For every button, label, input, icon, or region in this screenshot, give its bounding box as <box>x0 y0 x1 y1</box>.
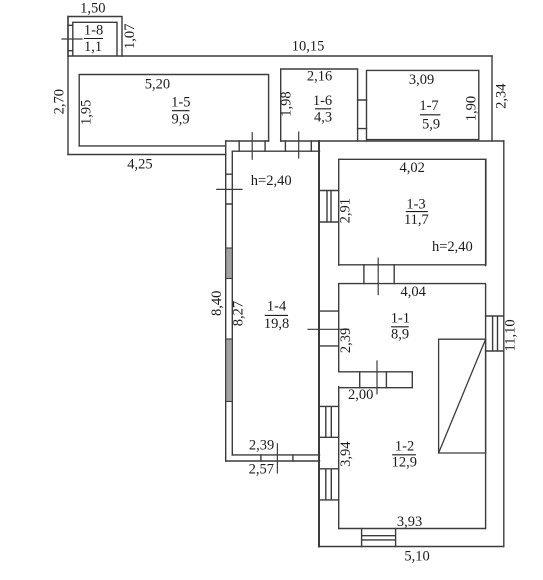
left wing bottom wall outer line <box>68 154 226 156</box>
window axis tick 1-8 <box>62 38 82 40</box>
svg-text:1-2: 1-2 <box>395 438 414 454</box>
svg-text:h=2,40: h=2,40 <box>432 239 473 255</box>
window connectors room 1-8 left wall <box>68 25 73 50</box>
svg-text:1-4: 1-4 <box>267 298 287 314</box>
svg-text:4,25: 4,25 <box>127 156 152 172</box>
svg-text:4,04: 4,04 <box>401 284 427 300</box>
door axis tick 1-4 left <box>217 188 242 190</box>
door axis tick 1-3/1-1 <box>377 258 379 294</box>
wall 1-1/1-2 <box>339 372 413 388</box>
door axis tick 1-1/1-2 <box>376 361 378 394</box>
inner face line x=338.7 segments <box>338 159 340 528</box>
door cells 1-3/1-1 <box>364 265 394 284</box>
upper strip right wall <box>491 56 493 141</box>
svg-text:11,10: 11,10 <box>503 319 519 351</box>
main dividing wall line (1-4 right / outer left below) <box>318 141 320 547</box>
room 1-5 box <box>79 75 268 146</box>
room 1-4 bottom wall outer line <box>226 460 320 462</box>
top wall of upper strip <box>68 55 492 57</box>
svg-text:1,50: 1,50 <box>80 0 105 16</box>
room 1-6 box <box>281 69 358 141</box>
svg-text:19,8: 19,8 <box>264 316 289 332</box>
svg-text:1,07: 1,07 <box>122 24 138 49</box>
svg-text:8,27: 8,27 <box>231 301 247 326</box>
room 1-4 left wall inner line <box>231 151 233 455</box>
svg-text:2,39: 2,39 <box>249 437 274 453</box>
door connectors between 1-6 and 1-7 <box>358 100 367 129</box>
svg-text:8,40: 8,40 <box>209 291 225 316</box>
doorway 1-4/1-1 <box>319 311 339 346</box>
svg-text:9,9: 9,9 <box>171 111 189 127</box>
door axis tick right <box>298 132 300 158</box>
window 1-4/1-2 lower <box>319 469 339 500</box>
filled opening 2 on 1-4 left wall <box>226 339 233 402</box>
svg-text:1-7: 1-7 <box>419 98 438 114</box>
svg-text:1,90: 1,90 <box>464 96 480 121</box>
stove <box>439 339 486 453</box>
svg-text:4,3: 4,3 <box>314 109 332 125</box>
inner right wall line segments <box>485 159 487 528</box>
window right wall <box>486 316 504 351</box>
room 1-7 box <box>367 70 479 141</box>
room 1-4 left wall outer line <box>225 141 227 461</box>
svg-text:11,7: 11,7 <box>404 212 429 228</box>
dimension tick bottom <box>276 444 278 473</box>
room 1-1 top line <box>339 283 486 285</box>
outer right wall <box>503 141 505 547</box>
svg-text:5,10: 5,10 <box>404 548 429 564</box>
svg-text:2,00: 2,00 <box>348 387 373 403</box>
svg-text:2,91: 2,91 <box>337 198 353 223</box>
door axis tick 1-4/1-1 <box>308 328 349 330</box>
svg-text:2,57: 2,57 <box>249 462 274 478</box>
main top wall outer line (with passage gap) <box>226 140 504 142</box>
room 1-4 top wall inner line <box>232 150 319 152</box>
room 1-8 inner box <box>73 22 117 55</box>
svg-text:8,9: 8,9 <box>391 327 409 343</box>
svg-text:2,39: 2,39 <box>338 328 354 353</box>
outer bottom wall <box>319 546 504 548</box>
svg-text:10,15: 10,15 <box>292 39 325 55</box>
svg-text:2,70: 2,70 <box>52 89 68 114</box>
svg-text:12,9: 12,9 <box>392 454 417 470</box>
left outer wall <box>67 17 69 155</box>
svg-text:3,09: 3,09 <box>409 72 434 88</box>
svg-text:1-3: 1-3 <box>406 197 425 213</box>
svg-text:5,20: 5,20 <box>145 77 170 93</box>
svg-text:3,93: 3,93 <box>397 514 422 530</box>
svg-text:4,02: 4,02 <box>400 160 425 176</box>
left wing bottom wall inner line <box>79 145 226 147</box>
doorway connectors 1-4 left wall <box>226 174 233 204</box>
svg-text:1-1: 1-1 <box>391 310 410 326</box>
room 1-2 bottom line <box>339 528 486 530</box>
filled opening 1 on 1-4 left wall <box>226 248 233 279</box>
svg-text:5,9: 5,9 <box>422 116 440 132</box>
svg-text:2,16: 2,16 <box>307 69 332 85</box>
svg-text:1-8: 1-8 <box>84 23 103 39</box>
entrance steps <box>362 529 396 547</box>
svg-text:1,95: 1,95 <box>79 100 95 125</box>
svg-text:1-5: 1-5 <box>171 95 190 111</box>
door cell connectors in 1-4 top wall <box>239 141 311 151</box>
window 1-4/1-2 upper <box>319 406 339 437</box>
door axis tick left <box>251 133 253 160</box>
door cell connectors 1-4 bottom <box>261 455 293 461</box>
svg-text:1,98: 1,98 <box>279 91 295 116</box>
window 1-4/1-3 <box>319 191 339 223</box>
svg-text:2,34: 2,34 <box>494 83 510 109</box>
room 1-8 outer box <box>68 17 122 57</box>
room 1-4 bottom wall inner line <box>232 454 319 456</box>
svg-text:1,1: 1,1 <box>84 39 102 55</box>
room 1-3 box <box>339 159 486 264</box>
svg-text:h=2,40: h=2,40 <box>251 173 292 189</box>
svg-text:1-6: 1-6 <box>313 93 332 109</box>
door cells 1-1/1-2 <box>360 372 387 388</box>
svg-text:3,94: 3,94 <box>338 441 354 467</box>
